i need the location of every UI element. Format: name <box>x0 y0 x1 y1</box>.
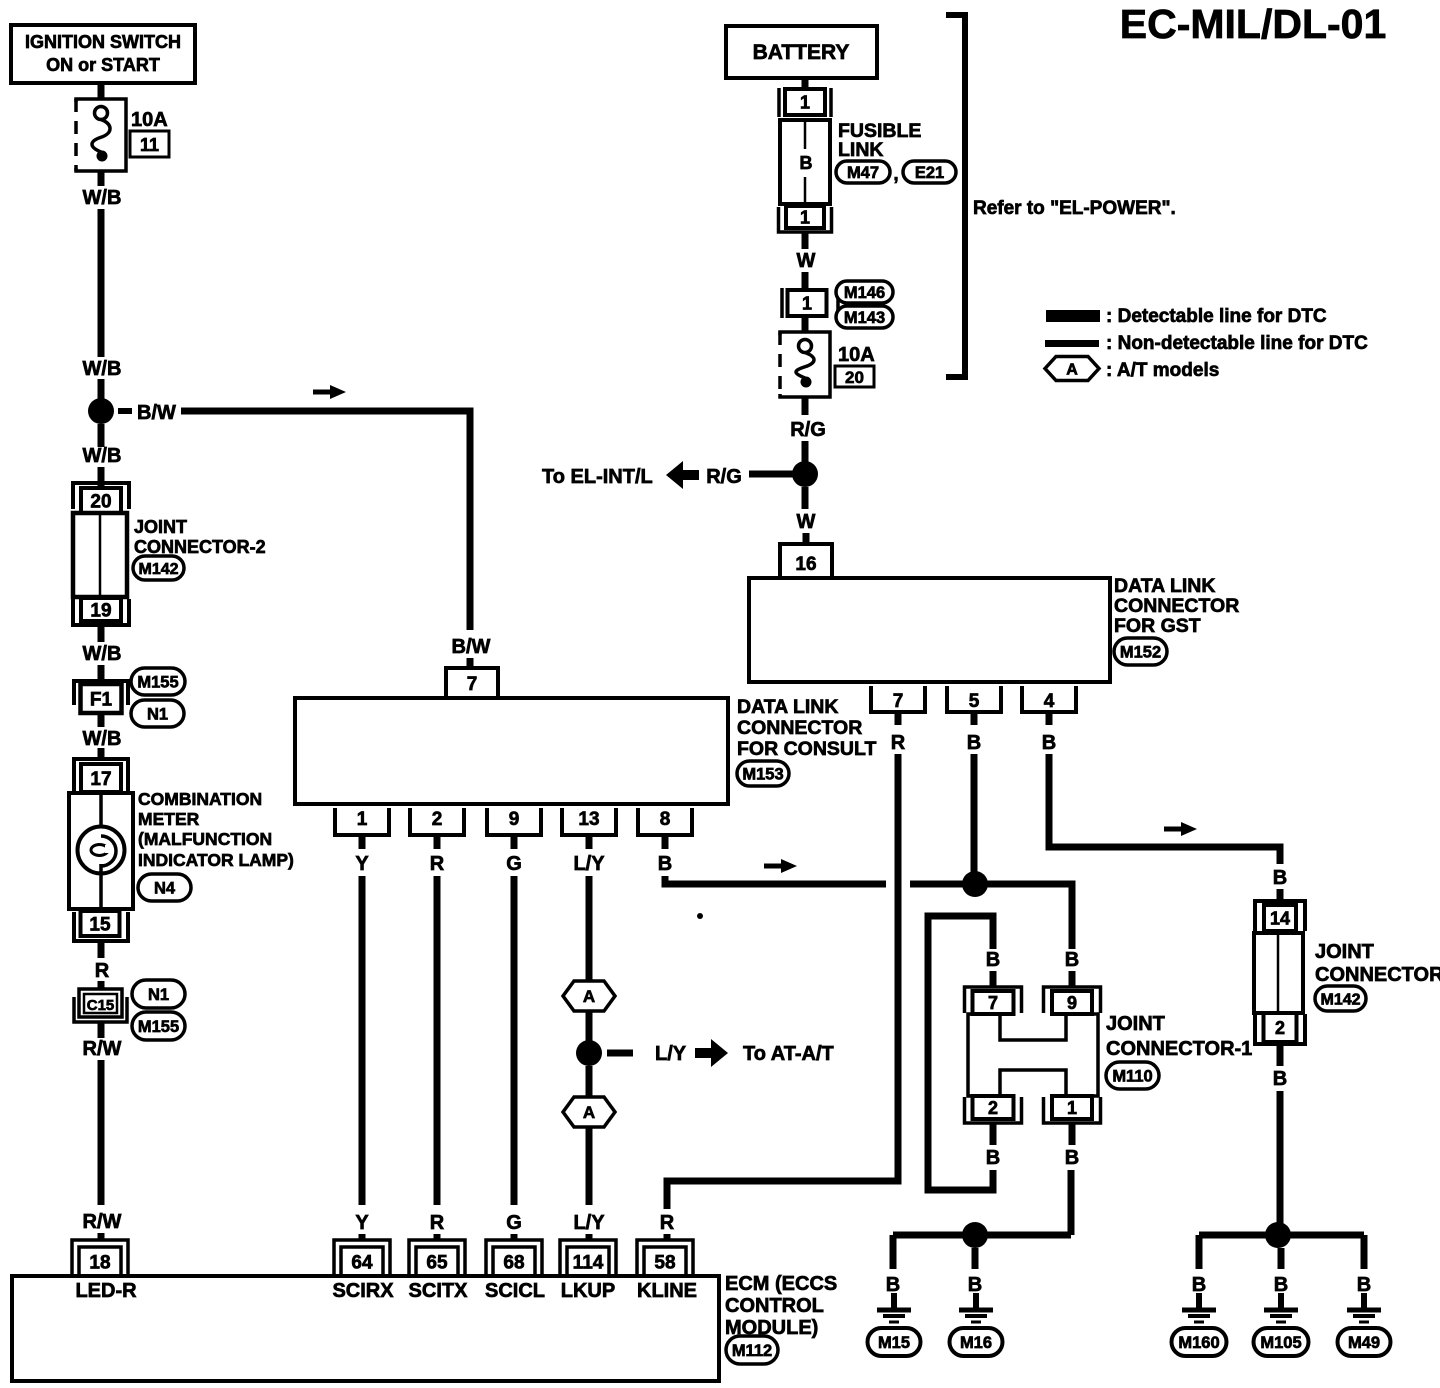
ground junction horizontal (right) <box>1199 1232 1364 1239</box>
svg-text:9: 9 <box>1067 993 1077 1013</box>
JC pin 2 box <box>1264 1013 1297 1042</box>
ECM pin 114 bracket <box>560 1240 616 1277</box>
svg-text:JOINT: JOINT <box>1315 941 1374 963</box>
connector F1 bracket <box>74 681 128 705</box>
svg-text:A: A <box>1066 361 1078 378</box>
GST pin 7 stub <box>895 712 902 725</box>
fusible link body <box>780 120 830 204</box>
svg-text:B: B <box>968 1274 982 1296</box>
consult pin 2 bracket <box>410 808 464 835</box>
GST pin 5 stub <box>971 712 978 725</box>
GST pin 4 bracket <box>1022 686 1076 712</box>
wire L/Y mid <box>586 1011 593 1041</box>
ECM pin 65 bracket <box>409 1240 465 1277</box>
svg-text:7: 7 <box>467 674 478 695</box>
svg-text:SCICL: SCICL <box>485 1280 545 1302</box>
stub JC-1 pin 7 <box>990 971 997 988</box>
JC-1 pin 2 box <box>973 1096 1014 1119</box>
svg-text:15: 15 <box>89 914 111 935</box>
svg-text:CONNECTOR: CONNECTOR <box>1315 964 1440 986</box>
svg-text:(MALFUNCTION: (MALFUNCTION <box>138 829 272 849</box>
dash to B/W label <box>118 408 132 414</box>
svg-text:7: 7 <box>893 691 904 712</box>
ground M160 <box>1196 1293 1202 1310</box>
svg-text:F1: F1 <box>90 689 113 710</box>
arrow to AT-A/T <box>695 1039 728 1067</box>
svg-text:N1: N1 <box>147 705 168 723</box>
svg-text:KLINE: KLINE <box>637 1280 697 1302</box>
svg-text:4: 4 <box>1044 691 1055 712</box>
svg-text:FOR CONSULT: FOR CONSULT <box>737 738 876 760</box>
wire G (SCICL) <box>511 876 518 1205</box>
svg-text:B: B <box>658 853 672 875</box>
wire Y (SCIRX) <box>359 876 366 1205</box>
svg-text:B: B <box>1357 1274 1371 1296</box>
wire to ground M15 <box>890 1235 897 1269</box>
oval M152 (GST) <box>1114 638 1167 665</box>
wire JC-2 to F1 <box>98 625 105 642</box>
svg-text:B: B <box>1065 1147 1079 1169</box>
JC-1 pin 1 bracket <box>1044 1097 1101 1123</box>
legend non-detectable bar <box>1045 340 1099 347</box>
connector F1 box <box>81 684 122 713</box>
joint connector-2 pin 20 bracket <box>73 483 129 509</box>
svg-text:20: 20 <box>845 368 864 387</box>
svg-text:W/B: W/B <box>83 187 122 209</box>
oval M110 (JC-1) <box>1106 1062 1159 1089</box>
ECM pin 58 box <box>644 1247 686 1276</box>
svg-text:1: 1 <box>802 293 812 313</box>
fuse 10A (battery) <box>780 332 830 397</box>
consult pin 13 stub <box>586 835 593 849</box>
svg-text:B: B <box>986 949 1000 971</box>
svg-text:B: B <box>1273 1068 1287 1090</box>
ground M105 <box>1278 1293 1284 1310</box>
svg-text:JOINT: JOINT <box>1106 1013 1165 1035</box>
svg-text:,: , <box>893 164 898 185</box>
oval M153 (consult) <box>737 761 789 786</box>
svg-text:2: 2 <box>1275 1018 1285 1038</box>
ECM pin 65 box <box>416 1247 458 1276</box>
wire ignition switch to fuse <box>98 83 105 100</box>
fuse number box 20 <box>835 366 874 387</box>
svg-text:SCITX: SCITX <box>409 1280 469 1302</box>
wire L/Y lower mid <box>586 1066 593 1097</box>
svg-text:14: 14 <box>1270 908 1290 928</box>
svg-text:W/B: W/B <box>83 445 122 467</box>
wire B/W to consult pin 7 <box>181 411 470 630</box>
svg-text:M110: M110 <box>1112 1067 1152 1085</box>
svg-text:N1: N1 <box>148 986 169 1004</box>
oval N4 (meter) <box>138 874 191 901</box>
fusible link pin 1 bottom bracket <box>779 207 832 232</box>
arrow on B wire <box>764 859 797 873</box>
svg-text:LINK: LINK <box>838 139 884 161</box>
GST pin 7 bracket <box>871 686 925 712</box>
legend detectable line bar <box>1046 310 1100 322</box>
svg-text:M142: M142 <box>138 561 178 578</box>
JC-1 pin 1 box <box>1052 1096 1092 1119</box>
svg-text:B: B <box>967 732 981 754</box>
svg-text:R: R <box>891 732 906 754</box>
svg-text:LED-R: LED-R <box>75 1280 137 1302</box>
wire JC-1 pin 1 to ground junction <box>1068 1170 1075 1235</box>
svg-text:11: 11 <box>140 135 159 155</box>
junction dot R/G tap <box>792 461 818 487</box>
GST pin 4 stub <box>1046 712 1053 725</box>
oval M155 (C15) <box>132 1012 185 1040</box>
JC-1 pin 9 bracket <box>1044 987 1101 1013</box>
arrow to EL-INT/L <box>666 461 699 489</box>
ECM pin 18 box <box>79 1247 121 1276</box>
svg-text:8: 8 <box>660 809 671 830</box>
oval M47 <box>836 161 890 183</box>
stray dot artifact <box>697 913 703 919</box>
svg-text:M143: M143 <box>844 309 885 327</box>
wire B from GST pin 4 to JC <box>1049 754 1280 864</box>
joint connector-2 pin 19 box <box>81 598 121 621</box>
svg-text:COMBINATION: COMBINATION <box>138 789 262 809</box>
junction dot B/W tap <box>88 398 114 424</box>
svg-text:LKUP: LKUP <box>561 1280 615 1302</box>
svg-text:: A/T models: : A/T models <box>1106 360 1219 381</box>
svg-text:1: 1 <box>1067 1098 1077 1118</box>
wire F1 to meter <box>98 713 105 727</box>
oval E21 <box>903 161 956 183</box>
svg-text:To EL-INT/L: To EL-INT/L <box>542 466 653 488</box>
wire B from GST pin 5 to junction <box>971 754 978 878</box>
oval M143 <box>836 306 893 328</box>
svg-text:17: 17 <box>90 769 111 790</box>
svg-text:18: 18 <box>89 1252 110 1273</box>
stub to JC-1 pin 9 <box>1069 971 1076 988</box>
ECM box <box>12 1276 719 1381</box>
ECM pin 58 bracket <box>637 1240 693 1277</box>
JC body <box>1254 933 1303 1013</box>
wire junction to GST pin 16 <box>802 487 809 509</box>
stub JC-1 pin 2 <box>990 1123 997 1145</box>
svg-text:20: 20 <box>90 491 111 512</box>
arrow on pin4 B wire <box>1164 822 1197 836</box>
wire loop JC-1 pin 2 to pin 7 <box>928 916 993 1190</box>
svg-text:19: 19 <box>90 600 111 621</box>
svg-text:To AT-A/T: To AT-A/T <box>743 1043 834 1065</box>
consult pin 9 bracket <box>487 808 541 835</box>
meter bulb lead top <box>99 795 103 838</box>
wire W/B down <box>98 171 105 186</box>
svg-text:A: A <box>583 987 595 1006</box>
ground M15 <box>891 1293 897 1310</box>
wire JC pin 2 to ground junction <box>1277 1044 1284 1066</box>
meter pin 17 bracket <box>74 759 128 791</box>
svg-text:1: 1 <box>357 809 368 830</box>
svg-text:G: G <box>506 853 522 875</box>
wire R/G tap left <box>749 471 798 478</box>
svg-text:R: R <box>430 1212 445 1234</box>
ECM pin 68 box <box>493 1247 535 1276</box>
wire fusible link to joint <box>802 232 809 249</box>
JC pin 14 box <box>1264 905 1296 931</box>
oval N1 (C15) <box>132 980 185 1008</box>
svg-text:JOINT: JOINT <box>134 517 187 537</box>
svg-text:10A: 10A <box>838 344 875 366</box>
svg-text:R/W: R/W <box>83 1211 122 1233</box>
svg-text:R: R <box>430 853 445 875</box>
svg-text:G: G <box>506 1212 522 1234</box>
wire meter to C15 <box>98 941 105 958</box>
joint connector-2 pin 19 bracket <box>73 599 129 625</box>
svg-text:B: B <box>1274 1274 1288 1296</box>
wire stub B/W to pin 7 <box>467 658 474 668</box>
svg-text:B: B <box>1192 1274 1206 1296</box>
fuse 10A (left) <box>76 99 126 171</box>
connector C15 bracket <box>74 997 127 1022</box>
bracket Refer to EL-POWER <box>946 15 965 377</box>
junction dot L/Y tap <box>576 1040 602 1066</box>
fuse number box 11 <box>130 131 169 157</box>
svg-text:W/B: W/B <box>83 728 122 750</box>
svg-text:B: B <box>1065 949 1079 971</box>
ECM pin 18 bracket <box>72 1240 128 1277</box>
svg-text:1: 1 <box>800 207 810 227</box>
junction dot grounds left <box>962 1222 988 1248</box>
bulb inner arc <box>101 836 116 866</box>
svg-text:CONNECTOR-1: CONNECTOR-1 <box>1106 1038 1252 1060</box>
svg-text:68: 68 <box>503 1252 524 1273</box>
A/T hexagon upper <box>563 981 615 1011</box>
svg-text:M15: M15 <box>878 1334 910 1352</box>
svg-text:: Detectable line for DTC: : Detectable line for DTC <box>1106 306 1327 327</box>
svg-text:5: 5 <box>969 691 980 712</box>
wire joint to fuse 20 <box>802 316 809 333</box>
wire B continues to JC-1 pin 9 <box>910 884 1072 949</box>
svg-text:114: 114 <box>573 1252 604 1273</box>
oval M142 (JC-2) <box>133 556 184 580</box>
wire B from consult pin 8 <box>665 876 886 884</box>
oval N1 (F1) <box>131 700 184 727</box>
wire R (SCITX) <box>434 876 441 1205</box>
svg-text:DATA LINK: DATA LINK <box>1114 575 1215 597</box>
svg-text:65: 65 <box>426 1252 448 1273</box>
oval M112 (ECM) <box>726 1336 778 1364</box>
svg-text:CONNECTOR: CONNECTOR <box>1114 595 1239 617</box>
oval M146 <box>836 281 893 303</box>
wire to ground M16 <box>972 1248 979 1269</box>
JC pin 14 bracket <box>1255 901 1305 931</box>
svg-text:W/B: W/B <box>83 358 122 380</box>
svg-text:CONNECTOR: CONNECTOR <box>737 717 862 739</box>
JC-1 pin 2 bracket <box>965 1097 1022 1123</box>
svg-text:M142: M142 <box>1320 991 1360 1008</box>
consult pin 1 bracket <box>335 808 389 835</box>
bulb filament <box>91 845 108 856</box>
svg-text:Y: Y <box>355 853 369 875</box>
svg-text:IGNITION SWITCH: IGNITION SWITCH <box>25 32 181 52</box>
svg-text:CONNECTOR-2: CONNECTOR-2 <box>134 537 266 557</box>
svg-text:13: 13 <box>578 809 599 830</box>
svg-text:C15: C15 <box>87 997 115 1014</box>
bulb filament gap <box>105 845 111 853</box>
svg-text:M47: M47 <box>847 164 879 182</box>
A/T hexagon lower <box>563 1097 615 1127</box>
svg-text:B/W: B/W <box>137 402 176 424</box>
svg-text:INDICATOR LAMP): INDICATOR LAMP) <box>138 850 294 870</box>
svg-text:2: 2 <box>432 809 443 830</box>
svg-text:2: 2 <box>988 1098 998 1118</box>
svg-text:B: B <box>886 1274 900 1296</box>
consult pin 8 bracket <box>638 808 692 835</box>
svg-text:L/Y: L/Y <box>655 1043 687 1065</box>
svg-text:M155: M155 <box>137 673 178 691</box>
ground junction horizontal (left) <box>893 1232 1071 1239</box>
svg-text:R: R <box>660 1212 675 1234</box>
svg-text:B: B <box>1042 732 1056 754</box>
svg-text:: Non-detectable line for DTC: : Non-detectable line for DTC <box>1106 333 1368 354</box>
svg-text:Refer to "EL-POWER".: Refer to "EL-POWER". <box>973 198 1176 219</box>
consult pin 13 bracket <box>562 808 616 835</box>
consult pin 1 stub <box>359 835 366 849</box>
svg-text:Y: Y <box>355 1212 369 1234</box>
svg-text:M16: M16 <box>960 1334 992 1352</box>
meter bulb lead bottom <box>99 864 103 907</box>
svg-text:W: W <box>797 250 816 272</box>
svg-text:METER: METER <box>138 809 200 829</box>
svg-text:16: 16 <box>795 554 816 575</box>
meter pin 15 bracket <box>74 912 128 941</box>
stub JC-1 pin 1 <box>1069 1123 1076 1145</box>
ECM pin 114 box <box>567 1247 609 1276</box>
wire L/Y to ECM <box>586 1127 593 1205</box>
fusible link pin 1 top box <box>785 89 825 115</box>
svg-text:BATTERY: BATTERY <box>753 41 850 64</box>
legend A/T hexagon <box>1045 357 1099 381</box>
oval M142 (right JC) <box>1315 986 1366 1011</box>
svg-text:B: B <box>1273 867 1287 889</box>
svg-text:B: B <box>986 1147 1000 1169</box>
svg-text:E21: E21 <box>915 164 944 182</box>
svg-text:CONTROL: CONTROL <box>725 1295 824 1317</box>
fusible link pin 1 bottom box <box>786 206 824 228</box>
consult pin 9 stub <box>511 835 518 849</box>
JC-1 H body <box>968 1014 1098 1096</box>
wire fuse to R/G junction <box>802 397 809 415</box>
wire to ground M49 <box>1361 1235 1368 1269</box>
wire R from GST pin 7 to KLINE <box>667 754 898 1209</box>
svg-text:B: B <box>800 153 813 173</box>
svg-text:W/B: W/B <box>83 643 122 665</box>
combination meter body <box>69 793 133 909</box>
svg-text:M153: M153 <box>742 765 783 783</box>
svg-text:M155: M155 <box>138 1018 179 1036</box>
svg-text:ECM (ECCS: ECM (ECCS <box>725 1273 837 1295</box>
svg-text:R/G: R/G <box>790 419 826 441</box>
svg-text:L/Y: L/Y <box>573 1212 605 1234</box>
stub to JC pin 14 <box>1277 889 1284 901</box>
wire L/Y upper <box>586 876 593 981</box>
svg-text:L/Y: L/Y <box>573 853 605 875</box>
svg-text:1: 1 <box>800 92 810 112</box>
JC-1 pin 9 box <box>1052 991 1092 1014</box>
junction dot B (pin5/pin8) <box>962 871 988 897</box>
svg-text:9: 9 <box>509 809 520 830</box>
GST pin 5 bracket <box>947 686 1001 712</box>
svg-text:M146: M146 <box>844 284 885 302</box>
svg-text:R/W: R/W <box>83 1038 122 1060</box>
svg-text:R/G: R/G <box>706 466 742 488</box>
wire battery to fusible link <box>802 78 809 90</box>
svg-text:M160: M160 <box>1178 1334 1219 1352</box>
JC-1 pin 7 bracket <box>965 987 1022 1013</box>
svg-text:M105: M105 <box>1260 1334 1301 1352</box>
junction dot grounds right <box>1265 1222 1291 1248</box>
svg-text:DATA LINK: DATA LINK <box>737 696 838 718</box>
svg-text:SCIRX: SCIRX <box>332 1280 394 1302</box>
joint connector-2 pin 20 box <box>81 488 121 513</box>
svg-text:58: 58 <box>654 1252 675 1273</box>
svg-text:R: R <box>95 960 110 982</box>
svg-text:B/W: B/W <box>452 636 491 658</box>
JC pin 2 bracket <box>1255 1014 1305 1044</box>
oval M155 (F1) <box>131 668 185 695</box>
ECM pin 68 bracket <box>486 1240 542 1277</box>
wire to ground M160 <box>1196 1235 1203 1269</box>
wire junction to joint connector-2 <box>98 424 105 447</box>
svg-text:M112: M112 <box>732 1342 772 1360</box>
svg-text:ON or START: ON or START <box>46 55 160 75</box>
svg-text:A: A <box>583 1103 595 1122</box>
svg-text:M152: M152 <box>1120 643 1161 661</box>
svg-text:EC-MIL/DL-01: EC-MIL/DL-01 <box>1120 1 1387 47</box>
consult pin 2 stub <box>434 835 441 849</box>
wire C15 to ECM pin 18 <box>98 1022 105 1038</box>
battery box <box>726 26 877 78</box>
wire pin 7 bracket (consult) <box>446 668 498 698</box>
svg-text:W: W <box>797 511 816 533</box>
svg-text:7: 7 <box>988 993 998 1013</box>
ECM pin 64 bracket <box>334 1240 390 1277</box>
JC-1 pin 7 box <box>973 991 1014 1014</box>
connector C15 box <box>79 989 122 1017</box>
arrow on B/W line <box>313 385 346 399</box>
svg-text:64: 64 <box>351 1252 373 1273</box>
wire to ground M105 <box>1278 1248 1285 1269</box>
consult pin 8 stub <box>662 835 669 849</box>
data link connector for consult box <box>295 698 728 804</box>
joint connector M146/M143 box <box>788 290 827 316</box>
ground M16 <box>973 1293 979 1310</box>
meter pin 17 box <box>81 764 121 792</box>
data link connector for GST box <box>749 578 1110 682</box>
svg-text:10A: 10A <box>131 109 168 131</box>
svg-text:M49: M49 <box>1348 1334 1380 1352</box>
bulb circle <box>78 827 125 874</box>
svg-text:N4: N4 <box>154 879 176 897</box>
svg-text:FOR GST: FOR GST <box>1114 615 1201 637</box>
ECM pin 64 box <box>341 1247 383 1276</box>
GST pin 16 bracket <box>780 544 832 577</box>
ignition switch box <box>11 25 195 83</box>
joint connector-2 body <box>73 513 127 597</box>
dash to L/Y label <box>607 1050 633 1057</box>
ground M49 <box>1361 1293 1367 1310</box>
meter pin 15 box <box>81 911 120 936</box>
